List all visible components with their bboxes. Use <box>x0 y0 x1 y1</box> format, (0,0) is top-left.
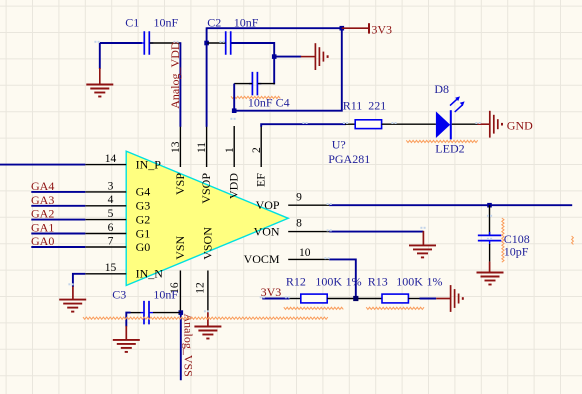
earth ground lead <box>301 56 316 58</box>
svg-text:10pF: 10pF <box>504 245 529 259</box>
earth ground (top) <box>315 43 327 70</box>
wire R13 right <box>408 298 419 300</box>
svg-text:G2: G2 <box>136 212 151 226</box>
wire VOP <box>329 204 572 206</box>
svg-text:2: 2 <box>251 147 263 153</box>
node junction VOP/C108 <box>487 203 492 208</box>
svg-text:IN_P: IN_P <box>136 157 162 171</box>
wire R11 left stub <box>345 123 355 125</box>
wire 3V3 to R12 <box>262 298 289 300</box>
svg-text:VSON: VSON <box>200 227 214 260</box>
svg-text:12: 12 <box>195 282 207 294</box>
svg-text:Analog_VDD: Analog_VDD <box>168 41 182 109</box>
wire C2 right <box>231 43 274 84</box>
wire IN_P net <box>0 164 85 166</box>
diode D8 cathode bar <box>450 110 452 139</box>
editor connection marks <box>68 41 492 313</box>
squiggle beside C108 <box>502 218 504 262</box>
pin 15 IN_N line <box>85 273 126 275</box>
ground (VON) <box>409 245 436 257</box>
ground (VSON) <box>194 327 221 339</box>
svg-text:G4: G4 <box>136 185 151 199</box>
wire GA0 <box>31 246 85 248</box>
wire C4 left drop <box>233 84 235 111</box>
svg-text:11: 11 <box>196 142 208 153</box>
ground (C1) <box>86 85 113 97</box>
wire R11 to LED <box>382 123 436 125</box>
pin 16 VSN line <box>179 271 181 313</box>
svg-text:VSP: VSP <box>173 173 187 195</box>
resistor R11 <box>355 120 381 129</box>
svg-text:VOCM: VOCM <box>244 252 280 266</box>
svg-text:100K: 100K <box>315 275 342 289</box>
pin 8 VON line <box>288 231 329 233</box>
squiggle under C4 label <box>231 96 280 98</box>
svg-text:5: 5 <box>108 208 114 220</box>
wire C108 top <box>489 205 491 235</box>
svg-text:D8: D8 <box>434 82 449 96</box>
wire LED to GND <box>452 123 478 125</box>
svg-text:3: 3 <box>108 180 114 192</box>
svg-text:R11: R11 <box>343 99 363 113</box>
pin 11 VSOP line <box>206 126 208 167</box>
svg-text:10: 10 <box>299 247 311 259</box>
svg-text:GA2: GA2 <box>31 207 54 221</box>
svg-text:GA0: GA0 <box>31 234 54 248</box>
svg-text:1%: 1% <box>346 275 362 289</box>
wire GA2 <box>31 219 85 221</box>
svg-text:C1: C1 <box>125 16 139 30</box>
squiggle under LED <box>406 140 477 142</box>
svg-text:PGA281: PGA281 <box>328 152 370 166</box>
svg-text:IN_N: IN_N <box>136 267 164 281</box>
wire top 3V3 rail <box>207 27 342 29</box>
wire R12 to R13 <box>327 298 382 300</box>
node junction 3V3 <box>340 26 345 31</box>
ground stem (C108) <box>489 244 491 262</box>
power port GND bars <box>490 111 502 138</box>
ground (IN_N) <box>59 300 86 312</box>
svg-text:100K: 100K <box>396 275 423 289</box>
wire C2 left stub <box>207 42 225 44</box>
svg-text:14: 14 <box>105 153 117 165</box>
node junction C2/C4/ground <box>272 54 277 59</box>
wire GA1 <box>31 233 85 235</box>
svg-text:6: 6 <box>108 222 114 234</box>
svg-text:U?: U? <box>332 138 346 152</box>
capacitor C3 <box>141 301 154 325</box>
svg-text:3V3: 3V3 <box>371 23 392 37</box>
capacitor C4 <box>249 72 262 96</box>
diode D8 arrow 1 <box>450 96 460 105</box>
pin 5 G2 line <box>85 219 126 221</box>
svg-text:7: 7 <box>108 235 114 247</box>
squiggle under R12 <box>284 307 344 309</box>
resistor R13 <box>382 294 408 303</box>
ground stem (VON) <box>422 231 424 246</box>
svg-text:LED2: LED2 <box>435 141 464 155</box>
wire C3 right <box>153 312 181 314</box>
node junction R12/R13 <box>353 296 358 301</box>
wire EF <box>261 124 346 127</box>
diode D8 arrow 2 <box>455 101 465 112</box>
svg-text:1%: 1% <box>427 275 443 289</box>
wire GA3 <box>31 205 85 207</box>
long squiggle across bottom <box>83 317 328 319</box>
wire IN_N to ground <box>73 274 85 287</box>
pin 1 VDD line <box>233 126 235 167</box>
svg-text:VON: VON <box>254 224 280 238</box>
power port 3V3 lead <box>342 27 369 29</box>
wire C3 left <box>126 313 130 327</box>
squiggle right edge <box>572 236 574 245</box>
wire C1 left <box>100 42 142 44</box>
svg-text:10nF: 10nF <box>153 288 178 302</box>
svg-text:GA4: GA4 <box>31 179 54 193</box>
diode D8 LED body <box>436 111 450 138</box>
resistor R12 <box>301 294 327 303</box>
wire VSP vertical <box>179 42 181 127</box>
wire C4 left <box>234 83 252 85</box>
svg-text:C3: C3 <box>112 288 126 302</box>
wire R12 left stub <box>289 298 301 300</box>
svg-text:Analog_VSS: Analog_VSS <box>182 314 196 377</box>
svg-text:10nF: 10nF <box>154 16 179 30</box>
wire VOCM <box>329 259 356 298</box>
earth ground lead (R13) <box>436 298 450 300</box>
wire VON <box>329 231 423 233</box>
svg-text:9: 9 <box>296 192 302 204</box>
pin 10 VOCM line <box>288 258 329 260</box>
svg-text:10nF: 10nF <box>234 16 259 30</box>
wire VSOP vertical <box>206 27 208 126</box>
svg-text:15: 15 <box>105 262 117 274</box>
svg-text:EF: EF <box>254 173 268 187</box>
ground stem (C1) <box>99 68 101 85</box>
svg-text:GA1: GA1 <box>31 221 54 235</box>
wire 3V3 to VDD <box>234 28 342 111</box>
ground stem (VSON) <box>207 312 209 327</box>
op-amp U1 PGA281 body <box>126 151 288 285</box>
svg-text:VOP: VOP <box>256 198 280 212</box>
pin 12 VSON line <box>207 271 209 313</box>
svg-text:C2: C2 <box>207 16 221 30</box>
svg-text:R12: R12 <box>286 275 306 289</box>
pin 14 IN_P line <box>85 164 126 166</box>
svg-text:G0: G0 <box>136 240 151 254</box>
capacitor C2 <box>222 31 235 55</box>
node junction VDD <box>232 108 237 113</box>
ground stem (IN_N) <box>72 286 74 299</box>
capacitor C1 <box>141 31 154 55</box>
earth ground (R13) <box>451 285 463 312</box>
svg-text:13: 13 <box>170 141 182 153</box>
wire GA4 <box>31 191 85 193</box>
pin 13 VSP line <box>179 126 181 167</box>
pin 3 G4 line <box>85 191 126 193</box>
svg-text:1: 1 <box>224 147 236 153</box>
power port 3V3 bar <box>368 23 370 33</box>
svg-text:R13: R13 <box>368 275 388 289</box>
wire C4 right <box>258 83 275 85</box>
pin 9 VOP line <box>288 204 329 206</box>
svg-text:G3: G3 <box>136 199 151 213</box>
node junction C2 <box>204 41 209 46</box>
svg-text:G1: G1 <box>136 226 151 240</box>
svg-text:221: 221 <box>368 99 386 113</box>
capacitor C108 <box>478 232 502 245</box>
svg-text:8: 8 <box>296 217 302 229</box>
node junction VSN/C3 <box>179 310 184 315</box>
svg-text:GA3: GA3 <box>31 193 54 207</box>
ground (C108) <box>477 273 504 285</box>
wire to earth ground <box>274 56 301 58</box>
wire Analog_VSS <box>180 313 182 381</box>
svg-text:VDD: VDD <box>227 173 241 199</box>
power port GND lead <box>478 123 490 125</box>
pin 4 G3 line <box>85 205 126 207</box>
svg-text:VSOP: VSOP <box>199 173 213 204</box>
pin 7 G0 line <box>85 246 126 248</box>
wire C1 right to VSP <box>150 42 181 44</box>
pin 6 G1 line <box>85 233 126 235</box>
ground (C3) <box>113 340 140 352</box>
svg-text:VSN: VSN <box>173 235 187 259</box>
pin 2 EF line <box>260 126 262 167</box>
ground stem (C3) <box>125 326 127 340</box>
svg-text:4: 4 <box>108 194 114 206</box>
svg-text:GND: GND <box>507 118 533 132</box>
wire C1 drop <box>99 43 101 69</box>
squiggle under R13 <box>366 307 424 309</box>
